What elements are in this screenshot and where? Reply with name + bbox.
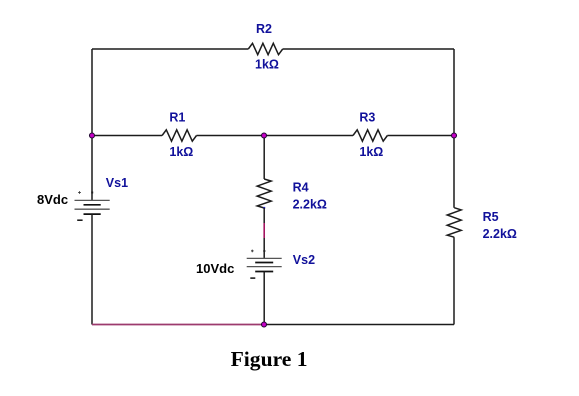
wire top-right segment [283, 48, 454, 50]
caption Figure 1 [231, 347, 308, 371]
svg-text:2.2kΩ: 2.2kΩ [293, 197, 327, 211]
wire bottom magenta highlighted segment [92, 324, 264, 326]
wire middle branch below Vs2 [263, 272, 265, 325]
wire middle branch upper [263, 136, 265, 180]
Vs2 pin end tick [263, 250, 265, 252]
svg-text:Figure 1: Figure 1 [231, 347, 308, 371]
R4 name label [293, 181, 309, 195]
R1 value label 1k ohm [169, 145, 193, 159]
svg-text:R1: R1 [169, 110, 185, 124]
svg-text:R5: R5 [483, 210, 499, 224]
R4 bottom pin end marker [263, 207, 265, 209]
svg-text:1kΩ: 1kΩ [359, 145, 383, 159]
wire middle branch below R4 black [263, 208, 265, 223]
wire right vertical lower [453, 237, 455, 324]
svg-text:1kΩ: 1kΩ [255, 58, 279, 72]
node junction right [452, 133, 457, 138]
Vs2 plus marker [251, 250, 254, 253]
source Vs1 battery symbol [75, 200, 110, 214]
wire left vertical upper [91, 49, 93, 200]
Vs2 value label 10Vdc [196, 261, 234, 276]
Vs1 pin end tick [91, 192, 93, 194]
wire right vertical upper [453, 49, 455, 208]
Vs2 name label [293, 253, 315, 267]
node junction bottom [262, 322, 267, 327]
wire middle branch magenta highlighted segment [263, 223, 265, 238]
resistor R5 [447, 208, 461, 238]
R1 name label [169, 110, 185, 124]
R3 name label [359, 110, 375, 124]
wire bottom right segment [264, 324, 454, 326]
node junction left [90, 133, 95, 138]
svg-text:8Vdc: 8Vdc [37, 192, 68, 207]
wire top-left segment [92, 48, 248, 50]
resistor R2 [248, 43, 282, 54]
wire left vertical lower [91, 214, 93, 324]
R5 name label [483, 210, 499, 224]
Vs1 name label [106, 176, 128, 190]
resistor R3 [353, 130, 387, 141]
svg-text:R2: R2 [256, 22, 272, 36]
wire middle horizontal right [387, 135, 454, 137]
R5 value label 2.2k ohm [483, 227, 517, 241]
Vs2 minus marker [250, 277, 255, 279]
R4 value label 2.2k ohm [293, 197, 327, 211]
node junction center [262, 133, 267, 138]
Vs1 value label 8Vdc [37, 192, 68, 207]
svg-text:R3: R3 [359, 110, 375, 124]
R2 name label [256, 22, 272, 36]
resistor R4 [257, 179, 271, 208]
svg-text:1kΩ: 1kΩ [169, 145, 193, 159]
wire middle horizontal left [92, 135, 162, 137]
R3 value label 1k ohm [359, 145, 383, 159]
wire middle branch above Vs2 black [263, 238, 265, 258]
svg-text:Vs2: Vs2 [293, 253, 315, 267]
source Vs2 battery symbol [247, 258, 282, 271]
svg-text:R4: R4 [293, 181, 309, 195]
wire middle horizontal center [197, 135, 354, 137]
svg-text:Vs1: Vs1 [106, 176, 128, 190]
svg-text:10Vdc: 10Vdc [196, 261, 234, 276]
svg-text:2.2kΩ: 2.2kΩ [483, 227, 517, 241]
R2 value label 1k ohm [255, 58, 279, 72]
Vs1 minus marker [77, 219, 82, 221]
Vs1 plus marker [78, 191, 81, 194]
resistor R1 [162, 130, 196, 141]
